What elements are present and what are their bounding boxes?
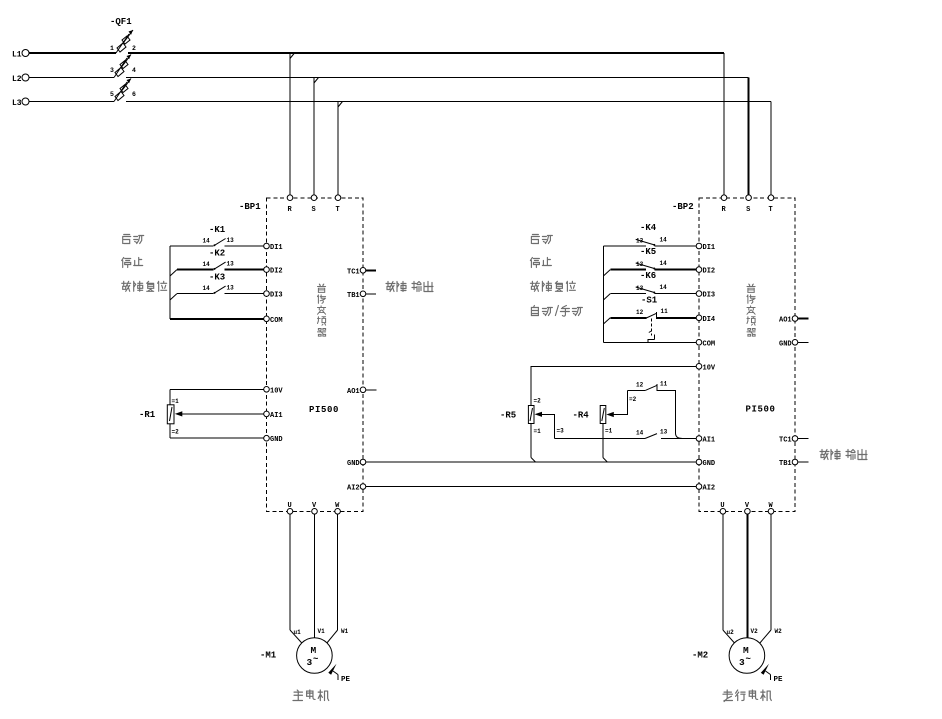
BP1 terminal COM xyxy=(264,316,283,325)
svg-text:DI2: DI2 xyxy=(703,268,716,276)
contact K2 (bold row) xyxy=(170,249,264,277)
svg-text:S: S xyxy=(312,206,316,214)
BP1 terminal DI2 xyxy=(264,267,283,276)
svg-text:TB1: TB1 xyxy=(347,292,360,300)
BP2 terminal COM xyxy=(696,340,715,349)
BP2 terminal TB1 xyxy=(779,459,809,468)
svg-text:GND: GND xyxy=(703,460,716,468)
svg-text:~: ~ xyxy=(313,655,318,665)
inverter BP1 box xyxy=(239,198,363,511)
wire L3 phase xyxy=(29,101,771,103)
inverter BP2 box xyxy=(672,198,795,511)
svg-text:13: 13 xyxy=(660,429,668,436)
svg-text:PE: PE xyxy=(774,676,784,684)
BP2 terminal TC1 xyxy=(779,436,809,445)
terminal L3 xyxy=(12,98,29,108)
wire 10V BP2 to R5 xyxy=(531,366,696,405)
label fault-reset BP2 xyxy=(530,281,575,291)
BP2 terminal AI2 xyxy=(696,484,715,493)
contact K5 (bold row) xyxy=(603,247,696,276)
wire drop BP2 S (bold) xyxy=(748,78,750,196)
svg-text:-K3: -K3 xyxy=(209,273,225,283)
svg-text:13: 13 xyxy=(636,238,644,245)
svg-text:GND: GND xyxy=(347,460,360,468)
svg-text:13: 13 xyxy=(227,237,235,244)
svg-text:DI3: DI3 xyxy=(703,292,716,300)
svg-text:GND: GND xyxy=(270,436,283,444)
label stop BP2 xyxy=(530,258,551,268)
svg-text:L1: L1 xyxy=(12,51,22,60)
potentiometer R4 xyxy=(573,390,637,462)
wire U M2 xyxy=(722,514,724,630)
wire U M1 xyxy=(289,514,291,630)
motor M2 xyxy=(692,638,765,674)
svg-text:14: 14 xyxy=(636,430,644,437)
svg-text:-S1: -S1 xyxy=(641,296,658,306)
svg-text:T: T xyxy=(336,206,340,214)
svg-text:T: T xyxy=(769,206,773,214)
BP1 terminal DI3 xyxy=(264,291,283,300)
label stop BP1 xyxy=(122,258,143,268)
BP2 terminal AO1 xyxy=(779,316,809,325)
BP2 terminal S xyxy=(746,195,752,214)
BP1 terminal T xyxy=(335,195,341,214)
svg-text:TB1: TB1 xyxy=(779,460,792,468)
wire W M1 xyxy=(337,514,339,630)
svg-text:13: 13 xyxy=(227,261,235,268)
svg-text:14: 14 xyxy=(660,237,668,244)
BP2 terminal DI3 xyxy=(696,291,715,300)
BP1 terminal AO1 xyxy=(347,387,376,396)
svg-text:COM: COM xyxy=(703,340,716,348)
label fault-reset BP1 xyxy=(122,281,167,291)
BP1 terminal GND left xyxy=(264,435,283,444)
svg-text:L2: L2 xyxy=(12,75,22,84)
pole 1 xyxy=(116,34,129,53)
svg-text:DI1: DI1 xyxy=(270,244,283,252)
svg-text:13: 13 xyxy=(636,261,644,268)
wire L2 phase xyxy=(29,77,749,79)
svg-text:=1: =1 xyxy=(172,398,180,405)
contact K4 xyxy=(603,223,696,246)
svg-text:V1: V1 xyxy=(318,628,326,635)
svg-text:5: 5 xyxy=(110,91,114,98)
BP1 terminal W xyxy=(335,502,341,514)
BP2 terminal GND right xyxy=(779,340,809,349)
svg-text:V2: V2 xyxy=(751,628,759,635)
svg-text:13: 13 xyxy=(227,285,235,292)
svg-text:AI1: AI1 xyxy=(270,412,283,420)
node bus BP1 xyxy=(169,246,171,319)
svg-text:W2: W2 xyxy=(775,628,783,635)
svg-text:-K2: -K2 xyxy=(209,249,225,259)
svg-text:-M2: -M2 xyxy=(692,651,708,661)
svg-text:=3: =3 xyxy=(557,428,565,435)
S1 linkage dashed xyxy=(650,319,652,336)
BP2 terminal DI1 xyxy=(696,243,715,252)
svg-text:DI4: DI4 xyxy=(703,316,716,324)
BP1 terminal 10V xyxy=(264,387,284,396)
wire drop BP1 S xyxy=(314,78,319,196)
svg-text:4: 4 xyxy=(132,67,136,74)
svg-text:14: 14 xyxy=(660,284,668,291)
label start BP2 xyxy=(531,235,552,244)
svg-text:AO1: AO1 xyxy=(779,317,792,325)
svg-text:-BP2: -BP2 xyxy=(672,202,694,212)
svg-text:-K1: -K1 xyxy=(209,225,226,235)
BP1 terminal V xyxy=(312,502,318,514)
svg-text:AO1: AO1 xyxy=(347,388,360,396)
svg-text:~: ~ xyxy=(746,655,751,665)
BP2 terminal V xyxy=(745,502,751,514)
wire COM BP1 (bold) xyxy=(170,318,264,320)
contact K1 xyxy=(170,225,264,246)
BP2 terminal GND left xyxy=(696,459,715,468)
svg-text:6: 6 xyxy=(132,91,136,98)
BP2 label inverter vertical xyxy=(747,284,755,336)
terminal L1 xyxy=(12,50,29,60)
svg-text:-K6: -K6 xyxy=(640,271,656,281)
svg-text:3: 3 xyxy=(307,657,313,668)
BP1 terminal DI1 xyxy=(264,243,283,252)
svg-text:14: 14 xyxy=(203,261,211,268)
svg-text:W1: W1 xyxy=(341,628,349,635)
svg-text:14: 14 xyxy=(203,238,211,245)
svg-text:PE: PE xyxy=(341,676,351,684)
svg-text:-R1: -R1 xyxy=(139,410,156,420)
svg-text:=2: =2 xyxy=(629,396,637,403)
svg-text:TC1: TC1 xyxy=(779,437,792,445)
svg-text:13: 13 xyxy=(636,285,644,292)
svg-text:11: 11 xyxy=(661,308,669,315)
wire V M2 (bold) xyxy=(746,514,748,638)
BP1 terminal AI2 xyxy=(347,484,366,493)
svg-text:PI500: PI500 xyxy=(746,405,776,415)
svg-text:u2: u2 xyxy=(727,629,735,636)
BP2 terminal DI4 xyxy=(696,315,715,324)
svg-text:COM: COM xyxy=(270,317,283,325)
svg-text:DI3: DI3 xyxy=(270,292,283,300)
selector switch S1 (DI4 row, bold) xyxy=(603,296,696,343)
BP1 terminal TB1 xyxy=(347,291,376,300)
wire R1 to 10V xyxy=(170,388,264,390)
svg-text:-K5: -K5 xyxy=(640,247,656,257)
BP1 terminal AI1 xyxy=(264,411,283,420)
svg-text:AI1: AI1 xyxy=(703,437,716,445)
wire drop BP1 R xyxy=(290,53,295,195)
BP2 terminal U xyxy=(720,502,726,514)
label fault-output BP1 xyxy=(386,282,433,292)
wire R1 to GND xyxy=(170,437,264,439)
svg-text:=1: =1 xyxy=(605,428,613,435)
svg-text:14: 14 xyxy=(203,285,211,292)
wire drop BP1 T xyxy=(338,102,343,196)
circuit breaker QF1 xyxy=(110,17,136,102)
svg-text:12: 12 xyxy=(636,309,644,316)
terminal L2 xyxy=(12,74,29,84)
label auto/manual BP2 xyxy=(531,306,582,317)
label start BP1 xyxy=(123,235,144,244)
BP1 terminal R xyxy=(287,195,293,214)
wire COM BP2 xyxy=(603,341,696,343)
BP2 terminal 10V xyxy=(696,364,716,373)
svg-text:-R5: -R5 xyxy=(500,411,516,421)
svg-text:AI2: AI2 xyxy=(703,485,716,493)
pole 2 xyxy=(114,58,127,78)
wire drop BP2 R xyxy=(723,53,725,195)
pole 3 xyxy=(114,82,127,102)
BP2 terminal T xyxy=(768,195,774,214)
svg-text:11: 11 xyxy=(660,381,668,388)
contact auto (12/11) xyxy=(628,381,682,439)
svg-text:=1: =1 xyxy=(534,428,542,435)
BP1 terminal U xyxy=(287,502,293,514)
BP1 terminal GND right xyxy=(347,459,366,468)
wire L1 phase (bold) xyxy=(29,52,724,54)
svg-text:u1: u1 xyxy=(294,629,302,636)
svg-text:-QF1: -QF1 xyxy=(110,17,132,27)
label travel-motor xyxy=(723,690,771,702)
svg-text:-BP1: -BP1 xyxy=(239,202,261,212)
svg-text:-M1: -M1 xyxy=(260,651,277,661)
wire drop BP2 T xyxy=(770,102,772,196)
svg-text:S: S xyxy=(746,206,750,214)
label fault-output BP2 xyxy=(820,450,867,460)
wire AI2 row BP1-BP2 xyxy=(366,486,696,488)
potentiometer R1 xyxy=(139,389,264,438)
contact K6 xyxy=(603,271,696,300)
svg-text:2: 2 xyxy=(132,45,136,52)
svg-text:14: 14 xyxy=(660,260,668,267)
svg-text:GND: GND xyxy=(779,340,792,348)
contact manual (14/13) on AI1 row xyxy=(555,429,697,439)
svg-text:3: 3 xyxy=(110,67,114,74)
BP1 terminal TC1 xyxy=(347,268,376,277)
BP2 terminal R xyxy=(721,195,727,214)
wire GND row BP1-BP2 xyxy=(366,461,696,463)
motor M1 xyxy=(260,638,332,674)
svg-text:TC1: TC1 xyxy=(347,268,360,276)
BP1 terminal S xyxy=(311,195,317,214)
svg-text:10V: 10V xyxy=(270,387,283,395)
wire V M1 xyxy=(314,514,316,638)
BP2 terminal W xyxy=(768,502,774,514)
wire W M2 xyxy=(770,514,772,630)
svg-text:12: 12 xyxy=(636,382,644,389)
svg-text:=2: =2 xyxy=(172,429,180,436)
ground PE M1 xyxy=(328,664,350,684)
svg-text:-K4: -K4 xyxy=(640,223,657,233)
svg-text:DI1: DI1 xyxy=(703,244,716,252)
svg-text:U: U xyxy=(720,502,724,510)
S1 lower contact xyxy=(648,335,654,343)
ground PE M2 xyxy=(761,664,783,684)
svg-text:DI2: DI2 xyxy=(270,268,283,276)
svg-text:1: 1 xyxy=(110,45,114,52)
svg-text:-R4: -R4 xyxy=(573,411,590,421)
svg-text:L3: L3 xyxy=(12,99,22,108)
svg-text:U: U xyxy=(288,502,292,510)
svg-text:=2: =2 xyxy=(534,398,542,405)
svg-text:10V: 10V xyxy=(703,364,716,372)
contact K3 xyxy=(170,273,264,301)
node bus BP2 xyxy=(602,246,604,342)
label main-motor xyxy=(293,690,329,701)
svg-text:AI2: AI2 xyxy=(347,485,360,493)
svg-text:3: 3 xyxy=(739,657,745,668)
BP2 terminal AI1 xyxy=(696,436,715,445)
potentiometer R5 xyxy=(500,398,564,463)
svg-text:PI500: PI500 xyxy=(309,405,339,415)
BP2 terminal DI2 xyxy=(696,267,715,276)
BP1 label inverter vertical xyxy=(318,284,326,336)
